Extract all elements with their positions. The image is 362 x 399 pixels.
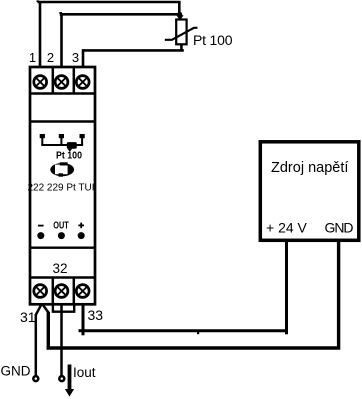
screw terminal 33 bbox=[76, 285, 89, 298]
svg-text:31: 31 bbox=[20, 309, 36, 325]
module face Pt100 3-wire symbol bbox=[41, 137, 83, 146]
wire terminal 1 to Pt100 top bbox=[37, 0, 179, 67]
svg-text:32: 32 bbox=[52, 261, 67, 276]
label plus bbox=[78, 223, 84, 229]
thermistor diagonal stroke bbox=[165, 28, 198, 40]
arrowhead into Pt100 bbox=[176, 15, 183, 20]
top terminal divider 1-2 bbox=[52, 67, 55, 94]
manufacturer logo ellipse bbox=[50, 162, 74, 176]
top terminal block bottom edge bbox=[30, 92, 95, 94]
wire split at terminal 31 bbox=[36, 304, 49, 315]
svg-text:33: 33 bbox=[88, 307, 104, 323]
junction at Pt100 top bbox=[177, 12, 182, 17]
svg-text:GND: GND bbox=[1, 364, 31, 379]
wire terminal 33 to power supply +24V bbox=[83, 242, 287, 331]
module DIN foot bbox=[53, 304, 74, 311]
svg-text:222 229 Pt TUI: 222 229 Pt TUI bbox=[28, 183, 95, 194]
power supply box Zdroj napeti bbox=[260, 142, 359, 241]
indicator dot out bbox=[58, 232, 65, 239]
stray tick on wire bbox=[197, 332, 199, 334]
svg-text:Zdroj napětí: Zdroj napětí bbox=[271, 160, 348, 176]
wire terminal 31 to GND test point bbox=[35, 314, 38, 376]
wire terminal 31 to power supply GND bbox=[47, 242, 339, 349]
bottom terminal divider 32-33 bbox=[73, 278, 76, 305]
module face top divider bbox=[30, 120, 95, 122]
svg-text:Pt 100: Pt 100 bbox=[193, 32, 233, 48]
indicator dot plus bbox=[78, 232, 85, 239]
svg-text:+ 24 V: + 24 V bbox=[266, 220, 308, 236]
svg-text:GND: GND bbox=[325, 220, 354, 236]
module face bottom divider bbox=[30, 246, 95, 248]
wire Pt100 bottom to terminal 3 bbox=[83, 44, 184, 67]
resistor RT Pt100 body bbox=[176, 20, 186, 45]
svg-text:2: 2 bbox=[47, 50, 54, 65]
screw terminal 1 bbox=[34, 76, 47, 89]
corner overshoot ticks at 33 wire bbox=[79, 331, 287, 336]
svg-text:Iout: Iout bbox=[73, 365, 96, 380]
svg-text:3: 3 bbox=[72, 50, 79, 65]
screw terminal 32 bbox=[55, 285, 68, 298]
Iout current arrow bbox=[68, 365, 72, 391]
wire terminal 32 to Iout test point bbox=[60, 304, 63, 375]
sensor element blob on symbol bbox=[67, 142, 77, 149]
svg-text:Pt 100: Pt 100 bbox=[56, 151, 82, 162]
Iout test point circle bbox=[59, 376, 64, 381]
GND test point circle bbox=[33, 376, 38, 381]
label minus bbox=[38, 225, 44, 227]
screw terminal 3 bbox=[76, 76, 89, 89]
svg-text:1: 1 bbox=[29, 50, 36, 65]
screw terminal 31 bbox=[34, 285, 47, 298]
wire terminal 2 to Pt100 top junction bbox=[60, 12, 180, 67]
bottom terminal block top edge bbox=[30, 276, 95, 278]
indicator dot minus bbox=[37, 232, 44, 239]
svg-text:OUT: OUT bbox=[53, 221, 69, 232]
bottom terminal divider 31-32 bbox=[52, 278, 55, 305]
top terminal divider 2-3 bbox=[73, 67, 76, 94]
transmitter module outline bbox=[30, 67, 95, 304]
screw terminal 2 bbox=[55, 76, 68, 89]
